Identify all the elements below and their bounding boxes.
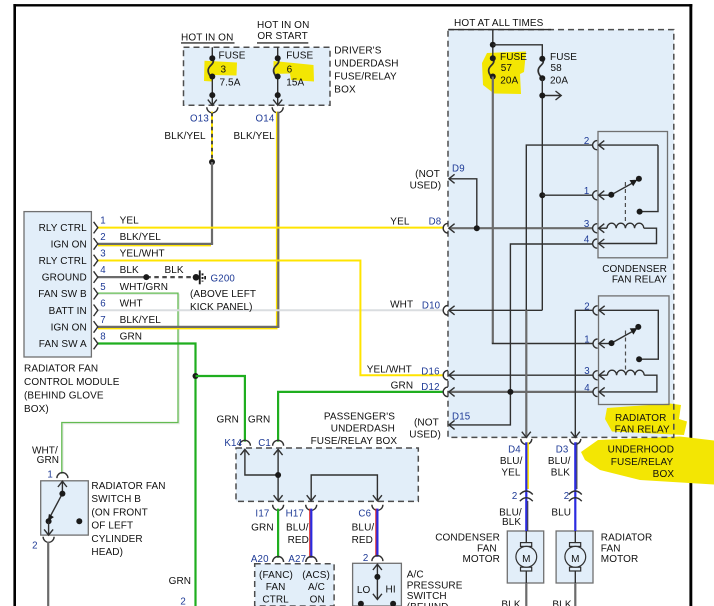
wire BLK dashed segment to G200 [146,276,193,278]
connector 2 socket cup below switch B [43,537,54,543]
highlight over fuse 3 [204,61,237,82]
label BLU/RED at C6 wire [352,523,375,547]
wire BLK/YEL from O14 down to module pin 7 [98,112,279,329]
radiator fan switch B movable arm [48,494,63,521]
inline connector 2 on condenser fan motor wire [520,491,533,501]
radiator fan control module box border [24,212,91,357]
svg-text:FAN: FAN [601,543,621,554]
svg-text:WHT: WHT [120,298,143,309]
wire BLK below radiator fan motor [574,583,576,606]
radiator fan relay pin 4 terminal [593,387,605,396]
svg-text:RADIATOR: RADIATOR [615,413,667,424]
svg-text:KICK PANEL): KICK PANEL) [190,302,253,313]
svg-text:HEAD): HEAD) [91,547,123,558]
svg-text:7: 7 [100,315,106,326]
module pin 6 chevron terminal [94,305,98,317]
svg-text:4: 4 [584,383,590,394]
value label FUSE 57 20A [500,52,527,87]
label RADIATOR FAN MOTOR [601,533,653,565]
fuse F3 element (FUSE 3 7.5A) [208,59,213,79]
label RADIATOR FAN SWITCH B (ON FRONT OF LEFT CYLINDER HEAD) [91,481,165,558]
radiator fan relay pin 2 internal wire to contact [599,310,658,359]
svg-text:D16: D16 [421,366,439,377]
svg-text:M: M [571,554,579,565]
connector C6 socket cup [372,505,383,511]
highlight over underhood fuse/relay box label [581,437,714,485]
svg-text:HOT AT ALL TIMES: HOT AT ALL TIMES [454,18,544,29]
svg-text:3: 3 [584,219,590,230]
radiator fan relay switch arm [612,328,638,343]
svg-text:YEL/WHT: YEL/WHT [120,249,165,260]
svg-text:FUSE/RELAY: FUSE/RELAY [611,457,674,468]
fuse F3 lower lead and exit arrow O13 [208,77,217,106]
branch stub with right arrow below fuse 58 [542,91,561,100]
fuse F3 feed wire inside driver's box [211,47,213,58]
wire GRN from D12 to connector C1 [278,392,443,442]
svg-text:C1: C1 [258,438,271,449]
junction dot D9/D8 [474,225,480,231]
ground G200 symbol [193,270,206,284]
connector 2 cap at A/C pressure switch [372,556,383,562]
label (NOT USED) at D9 [410,169,442,192]
label RADIATOR FAN RELAY [615,413,670,436]
svg-text:OR START: OR START [257,31,307,42]
solid underline under HOT AT ALL TIMES label [449,29,551,31]
svg-text:BLU/: BLU/ [352,523,375,534]
connector D9 internal wire with arrow (not used) [449,174,477,228]
svg-text:CYLINDER: CYLINDER [91,534,142,545]
svg-text:C6: C6 [358,508,371,519]
svg-text:LO: LO [357,585,371,596]
svg-text:BLK/YEL: BLK/YEL [234,131,276,142]
svg-text:OF LEFT: OF LEFT [91,521,133,532]
module pin 7 chevron terminal [94,321,98,333]
A/C pressure switch HI contact dot [390,601,396,606]
label PASSENGER'S UNDERDASH FUSE/RELAY BOX [311,411,398,447]
connector A27 cap [306,557,317,563]
svg-text:FAN: FAN [477,543,497,554]
wire BLK/YEL splice down to module pin 2 [98,162,213,245]
label BLU/BLK wire [548,456,571,479]
svg-text:USED): USED) [409,429,441,440]
wire from D10 to fuse 58 branch [449,306,542,315]
wire condenser relay pin 4 down to D15 stub [449,244,593,425]
wire BLK from module pin 4 (GROUND) [98,276,146,278]
svg-text:FUSE: FUSE [286,50,313,61]
svg-text:(NOT: (NOT [415,169,440,180]
svg-text:2: 2 [584,136,590,147]
label (NOT USED) at D15 [409,417,441,440]
svg-text:6: 6 [287,64,293,75]
splice dot on BLK/YEL wire [209,159,215,165]
label CONDENSER FAN MOTOR [435,533,500,565]
svg-text:IGN ON: IGN ON [51,239,87,250]
svg-text:HOT IN ON: HOT IN ON [257,20,309,31]
svg-text:GRN: GRN [169,576,192,587]
connector K14 cap [239,440,250,446]
svg-text:2: 2 [100,232,106,243]
connector D15 entry arrow (not used) [449,420,455,429]
svg-text:(ACS): (ACS) [302,570,330,581]
svg-text:D12: D12 [421,382,439,393]
FANC/ACS connector box border [255,564,334,606]
svg-text:RADIATOR FAN: RADIATOR FAN [24,364,98,375]
solid underline under HOT IN ON label [181,42,235,44]
svg-text:(ON FRONT: (ON FRONT [91,507,147,518]
connector A20 cap [273,557,284,563]
connector D10 socket cup [443,306,448,316]
radiator fan switch B exit wire pin 2 [44,521,53,535]
fuse F58 element (FUSE 58 20A) [538,59,543,79]
wire branch from fuse 57 feed to fuse 58 [493,45,543,58]
label A/C PRESSURE SWITCH (BEHIND [407,570,463,606]
svg-text:6: 6 [100,298,106,309]
connector O14 socket cup [272,107,283,113]
svg-text:4: 4 [100,265,106,276]
radiator fan switch B pin 1 cap [57,473,68,478]
svg-text:YEL: YEL [390,216,410,227]
svg-text:RADIATOR FAN: RADIATOR FAN [91,481,165,492]
label RADIATOR FAN CONTROL MODULE (BEHIND GLOVE BOX) [24,364,120,415]
svg-text:FAN SW B: FAN SW B [38,289,87,300]
svg-text:2: 2 [584,301,590,312]
radiator fan relay pin 2 terminal [593,306,605,315]
svg-text:O13: O13 [190,114,209,125]
svg-text:7.5A: 7.5A [220,78,241,89]
svg-text:BOX: BOX [653,469,675,480]
condenser fan relay pin 1 terminal [593,191,605,200]
passenger box internal bracket wire H17 to C6 [307,475,382,501]
svg-text:BOX: BOX [334,85,356,96]
svg-text:FUSE/RELAY BOX: FUSE/RELAY BOX [311,436,398,447]
svg-text:GRN: GRN [216,414,239,425]
svg-text:G200: G200 [211,273,236,284]
svg-text:A20: A20 [251,554,269,565]
svg-text:2: 2 [363,553,369,564]
junction dot inside passenger box [275,472,281,478]
svg-text:MOTOR: MOTOR [601,554,639,565]
svg-text:YEL: YEL [501,468,521,479]
svg-text:USED): USED) [410,181,442,192]
svg-text:2: 2 [564,491,570,502]
condenser fan relay box border [598,132,668,258]
svg-text:D15: D15 [452,412,470,423]
svg-text:57: 57 [501,63,513,74]
wire BLU/RED from C6 to A/C pressure switch pin 2 [376,509,378,557]
fuse F58 terminal dots [539,56,545,82]
wire from D12 to radiator fan relay pin 4 [449,387,594,396]
wire from fuse 58 down to D10 corner [541,78,543,310]
junction dot at fuse 58 branch stub [539,93,545,99]
module pin 3 chevron terminal [94,255,98,267]
underhood fuse/relay box border [448,30,674,438]
svg-text:GRN: GRN [248,414,271,425]
svg-text:A/C: A/C [308,582,325,593]
svg-text:BLU/: BLU/ [500,456,523,467]
svg-text:8: 8 [100,332,106,343]
fuse F6 feed wire inside driver's box [277,47,279,58]
label DRIVER'S UNDERDASH FUSE/RELAY BOX [334,45,398,95]
svg-text:M: M [522,554,530,565]
radiator fan motor box border [556,531,593,583]
svg-text:A27: A27 [288,554,306,565]
radiator fan motor M symbol [565,531,586,583]
connector H17 socket cup [306,505,317,511]
wire GRN from I17 to A20 [277,509,279,558]
wire from D16 to radiator fan relay pin 3 [449,371,594,380]
module pin 4 chevron terminal [94,271,98,283]
svg-text:BLK/YEL: BLK/YEL [120,315,162,326]
passenger's underdash fuse/relay box border [236,448,418,501]
svg-text:BLK/YEL: BLK/YEL [164,131,206,142]
label BLU/RED at H17 wire [286,523,309,547]
passenger box internal wire from C1 to I17 exit [274,449,283,501]
label BLU/BLK below inline connector [499,508,522,528]
wire YEL/WHT from module pin 3 to D16 [98,261,443,376]
svg-text:RLY CTRL: RLY CTRL [39,223,88,234]
svg-text:3: 3 [221,64,227,75]
condenser fan motor box border [507,531,543,583]
svg-text:(ABOVE LEFT: (ABOVE LEFT [190,289,256,300]
svg-text:(NOT: (NOT [414,417,439,428]
fuse F6 terminal dots [275,55,281,98]
svg-text:HI: HI [386,584,396,595]
svg-text:UNDERDASH: UNDERDASH [331,424,395,435]
radiator fan relay pin 3 terminal [593,371,605,380]
wire WHT/GRN from module pin 5 to radiator fan switch B pin 1 [62,293,179,474]
wire BLU/RED from H17 to A27 [310,509,312,558]
condenser fan relay coil and pin 4 loop [599,223,657,243]
svg-text:2: 2 [512,491,518,502]
svg-text:ON: ON [310,594,325,605]
radiator fan relay coil and pin 4 loop [599,370,657,392]
svg-text:2: 2 [32,540,38,551]
svg-text:I17: I17 [255,508,269,519]
radiator fan relay box border [599,296,670,405]
svg-text:(FANC): (FANC) [259,570,293,581]
svg-text:A/C: A/C [407,570,424,581]
svg-text:WHT/GRN: WHT/GRN [120,282,168,293]
condenser fan relay pin 3 terminal [593,224,605,233]
svg-text:PRESSURE: PRESSURE [407,580,463,591]
radiator fan relay actuator dashed link [625,331,627,372]
connector D4 socket cup [521,439,532,445]
label BLU/YEL wire [500,456,523,479]
svg-text:3: 3 [584,366,590,377]
value label FUSE 6 15A [286,50,313,88]
junction dot fuse 58 to condenser relay pin 1 [539,192,545,198]
svg-text:BLK: BLK [165,265,184,276]
svg-text:BLU: BLU [551,508,571,519]
radiator fan relay contact dots [609,324,643,362]
A/C pressure switch internal wire with entry arrow [373,564,382,599]
svg-text:BATT IN: BATT IN [49,306,87,317]
radiator fan relay pin 1 terminal [593,339,605,348]
wire WHT from module pin 6 to D10 [98,309,443,311]
svg-text:(BEHIND GLOVE: (BEHIND GLOVE [24,391,104,402]
svg-text:GRN: GRN [37,455,60,466]
svg-text:CTRL: CTRL [262,594,289,605]
connector D8 socket cup [443,223,448,233]
A/C pressure switch box border [353,563,402,606]
junction dot on BLK ground wire [143,274,149,280]
module pin 5 chevron terminal [94,288,98,300]
svg-text:D10: D10 [422,301,441,312]
fuse F57 terminal dots [490,55,496,79]
driver's underdash fuse/relay box border [184,47,331,105]
module pin 1 chevron terminal [94,222,98,234]
condenser fan relay actuator dashed link [624,182,626,224]
connector D12 socket cup [443,387,448,397]
svg-text:UNDERHOOD: UNDERHOOD [608,445,674,456]
svg-text:IGN ON: IGN ON [51,322,87,333]
svg-text:CONTROL MODULE: CONTROL MODULE [24,377,120,388]
svg-text:1: 1 [100,216,106,227]
ground location label (ABOVE LEFT KICK PANEL) [190,289,256,313]
wire from fuse 57 down to radiator fan relay pin 1 [492,77,494,344]
svg-text:1: 1 [47,470,53,481]
svg-text:2: 2 [180,597,186,606]
svg-text:SWITCH: SWITCH [407,591,447,602]
wire BLK/YEL from O13 down to splice (dashed black over yellow) [211,112,213,162]
svg-text:GRN: GRN [391,380,414,391]
svg-text:O14: O14 [256,114,275,125]
svg-text:BLU/: BLU/ [286,523,309,534]
svg-text:BLK: BLK [551,468,570,479]
passenger box internal wire from K14 [240,449,278,475]
svg-text:FUSE: FUSE [550,52,577,63]
svg-text:CONDENSER: CONDENSER [435,533,500,544]
junction dot on GRN wire [193,373,199,379]
wire radiator fan relay pin 2 down to D3 exit [571,310,594,437]
svg-text:RED: RED [352,535,373,546]
value label FUSE 58 20A [550,52,577,87]
wire YEL from module pin 1 to D8 [98,227,443,229]
svg-text:BLK/YEL: BLK/YEL [120,232,162,243]
labels inside FANC/ACS box [259,570,330,605]
svg-text:RADIATOR: RADIATOR [601,533,653,544]
svg-text:FAN: FAN [266,582,286,593]
svg-text:RLY CTRL: RLY CTRL [39,256,88,267]
fuse F6 element (FUSE 6 15A) [274,59,279,79]
svg-text:20A: 20A [550,75,568,86]
svg-text:RED: RED [288,535,309,546]
label CONDENSER FAN RELAY [602,264,667,286]
fuse F6 lower lead and exit arrow O14 [273,77,282,106]
radiator fan relay pin 1 internal wire to common [599,343,612,345]
wire GRN branch to connector K14 [196,376,245,442]
svg-text:5: 5 [100,282,106,293]
wire GRN from module pin 8 to lower left area [98,344,196,606]
svg-text:4: 4 [584,235,590,246]
connector I17 socket cup [273,505,284,511]
svg-text:H17: H17 [286,508,304,519]
radiator fan switch B box border [41,481,89,535]
svg-text:K14: K14 [224,438,242,449]
svg-text:PASSENGER'S: PASSENGER'S [324,411,395,422]
svg-text:YEL/WHT: YEL/WHT [367,364,412,375]
svg-text:(BEHIND: (BEHIND [407,602,449,606]
condenser fan relay pin 4 terminal [593,239,605,248]
value label FUSE 3 7.5A [219,50,246,88]
condenser fan relay pin 2 terminal [593,141,605,150]
wire condenser relay pin 2 down to D4 exit [522,145,593,437]
connector D3 socket cup [570,439,581,445]
condenser fan relay contact dots [608,176,642,215]
label WHT/GRN at switch B [32,445,59,466]
label HOT IN ON OR START (right fuse) [257,20,309,42]
wire BLK from switch B pin 2 down [47,542,49,606]
svg-text:GROUND: GROUND [42,273,87,284]
radiator fan switch B internal entry arrow [58,481,67,493]
highlight over fuse 57 [482,52,526,95]
svg-text:FAN RELAY: FAN RELAY [615,425,670,436]
solid underline under OR START label [257,42,308,44]
svg-text:D9: D9 [452,163,465,174]
svg-text:WHT: WHT [390,299,413,310]
svg-text:FUSE: FUSE [219,50,246,61]
label UNDERHOOD FUSE/RELAY BOX [608,445,675,480]
wire fuse 58 to condenser fan relay pin 1 [542,194,593,196]
radiator fan switch B contact dots [46,491,83,525]
svg-text:DRIVER'S: DRIVER'S [334,45,381,56]
fuse F57 element (FUSE 57 20A) [489,59,494,79]
wire feed into fuse 57 from top of underhood box [492,30,494,59]
module pin 2 chevron terminal [94,238,98,250]
svg-text:HOT IN ON: HOT IN ON [181,33,233,44]
highlight over radiator fan relay label [605,404,687,436]
junction dot on fuse 57 feed [490,42,496,48]
svg-text:YEL: YEL [120,216,140,227]
wire BLU/BLK from D3 to inline connector 2 [575,442,577,531]
condenser fan motor M symbol [516,531,537,583]
svg-text:58: 58 [551,63,563,74]
A/C pressure switch common dot [374,574,380,580]
svg-text:20A: 20A [500,75,518,86]
junction dot D12 branch [507,389,513,395]
inline connector 2 on radiator fan motor wire [569,491,582,501]
svg-text:SWITCH B: SWITCH B [91,494,141,505]
svg-text:BLK: BLK [502,517,521,528]
svg-text:BOX): BOX) [24,404,49,415]
svg-text:GRN: GRN [251,523,274,534]
condenser fan relay pin 1 internal wire to common [599,194,612,196]
svg-text:D4: D4 [508,445,521,456]
svg-text:CONDENSER: CONDENSER [602,264,667,275]
highlight over fuse 6 [274,61,315,82]
svg-text:D8: D8 [429,217,442,228]
connector C1 cap [273,440,284,446]
svg-text:D3: D3 [556,445,569,456]
svg-text:1: 1 [584,186,590,197]
svg-text:FUSE/RELAY: FUSE/RELAY [334,72,397,83]
A/C pressure switch LO contact dot [358,601,364,606]
svg-text:BLK: BLK [120,265,139,276]
svg-text:FAN RELAY: FAN RELAY [612,275,667,286]
svg-text:15A: 15A [286,78,304,89]
svg-text:1: 1 [584,335,590,346]
module pin 8 chevron terminal [94,338,98,350]
svg-text:BLK: BLK [501,600,520,606]
svg-text:BLU/: BLU/ [548,456,571,467]
svg-text:UNDERDASH: UNDERDASH [334,59,398,70]
connector O13 socket cup [207,107,218,113]
svg-text:3: 3 [100,249,106,260]
wire BLK below condenser fan motor [525,583,527,606]
fuse F3 terminal dots [209,55,215,98]
svg-text:GRN: GRN [120,332,143,343]
svg-text:FUSE: FUSE [500,52,527,63]
